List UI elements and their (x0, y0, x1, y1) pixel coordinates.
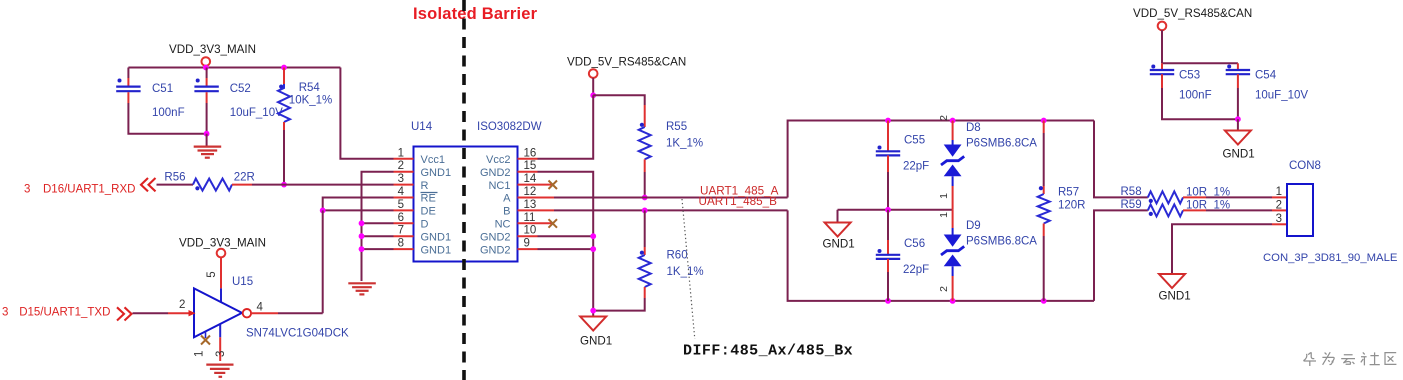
U14 left pin numbers (398, 147, 405, 249)
svg-text:R56: R56 (164, 172, 185, 184)
svg-text:1K_1%: 1K_1% (667, 266, 704, 278)
svg-text:16: 16 (524, 147, 537, 159)
wire R55 bottom lead (644, 159, 646, 172)
wire C55 top lead (887, 121, 889, 151)
node junction VDD_5V (590, 92, 596, 98)
svg-text:DE: DE (421, 206, 436, 218)
node junction on rail at R54 (281, 65, 287, 71)
U14 left pin stubs (394, 159, 414, 249)
no-connect X pin14 (549, 181, 558, 190)
svg-text:14: 14 (524, 173, 537, 185)
svg-text:D: D (421, 219, 429, 231)
wire A rail to R58 (1094, 121, 1148, 198)
svg-text:4: 4 (257, 302, 264, 314)
svg-text:SN74LVC1G04DCK: SN74LVC1G04DCK (246, 328, 349, 340)
node junction bottom rail R57 (1041, 298, 1047, 304)
svg-text:VDD_3V3_MAIN: VDD_3V3_MAIN (169, 43, 256, 56)
svg-text:8: 8 (398, 238, 404, 250)
connector CON8 (1263, 160, 1398, 264)
node junction R54/RXD wire (281, 182, 287, 188)
wire pin16 Vcc2 to VDD (538, 95, 594, 159)
svg-text:2: 2 (938, 115, 950, 121)
wire pin10 GND2 (538, 235, 594, 237)
wire top-left rail (128, 67, 340, 69)
ground GND1 symbol (top right) (1223, 131, 1255, 161)
wire C53 top lead (1161, 63, 1163, 70)
svg-text:R55: R55 (666, 121, 687, 133)
svg-text:3: 3 (1276, 213, 1282, 225)
svg-text:15: 15 (524, 160, 537, 172)
svg-text:VDD_3V3_MAIN: VDD_3V3_MAIN (179, 237, 266, 250)
wire U15 output (251, 312, 278, 314)
no-connect X pin11 (549, 219, 558, 228)
wire D9 bottom lead (952, 266, 954, 276)
ground GND1 symbol (middle) (580, 317, 612, 348)
node junction top rail R57 (1041, 118, 1047, 124)
U15 pin1 no-connect X (194, 332, 211, 358)
wire A up to filter top rail (788, 121, 1094, 198)
IC U14 ISO3082DW (411, 121, 542, 262)
wire R59 to CON8 pin2 (1183, 209, 1206, 211)
svg-text:9: 9 (524, 238, 530, 250)
capacitor C52 (194, 79, 283, 120)
svg-text:NC: NC (495, 219, 511, 231)
svg-text:R54: R54 (299, 82, 321, 94)
svg-text:GND1: GND1 (823, 238, 855, 251)
svg-text:U14: U14 (411, 121, 433, 133)
svg-text:C56: C56 (904, 238, 925, 250)
wire C52 bottom lead (206, 92, 208, 103)
svg-text:R59: R59 (1121, 199, 1142, 211)
U14 right pin names (480, 154, 511, 256)
node junction C51/C52 ground (204, 131, 210, 137)
capacitor C56 (876, 238, 929, 276)
wire mid gnd rail (838, 209, 953, 211)
node junction bottom rail D9 (950, 298, 956, 304)
wire R57 top lead (1043, 121, 1045, 134)
svg-text:C55: C55 (904, 135, 925, 147)
svg-text:5: 5 (398, 199, 404, 211)
wire gnd stub (filter) (837, 210, 839, 223)
wire R55 top lead (644, 105, 646, 127)
wire B down to filter bottom rail (788, 210, 1094, 301)
wire B rail to R59 (1094, 210, 1148, 301)
wire VCC rail to pin1 (340, 68, 393, 159)
wire DE down to U15 output (322, 210, 324, 313)
svg-text:GND2: GND2 (480, 244, 511, 256)
wire C54 top lead (1237, 63, 1239, 70)
isolated barrier dashed line (462, 0, 466, 380)
svg-text:GND1: GND1 (1159, 290, 1191, 303)
wire D9 top lead (952, 210, 954, 228)
U14 right pin stubs (518, 159, 555, 249)
svg-text:B: B (503, 206, 510, 218)
resistor R55 (639, 121, 703, 159)
ground earth symbol (U14) (348, 283, 376, 294)
wire U15 pin3 gnd (219, 325, 221, 338)
wire pin15 GND2 down (538, 172, 594, 317)
svg-text:1: 1 (194, 351, 206, 357)
svg-text:A: A (503, 193, 511, 205)
resistor R57 (1038, 186, 1086, 223)
svg-text:D9: D9 (966, 220, 981, 232)
wire TXD input (133, 312, 169, 314)
wire C56 top lead (887, 210, 889, 240)
op-amp U15 (inverter SN74LVC1G04DCK) (179, 237, 349, 340)
wire pin9 GND2 (538, 248, 594, 250)
wire pin7 GND1 (362, 235, 394, 237)
wire input arrowhead (189, 310, 196, 316)
wire C54 bottom lead (1237, 74, 1239, 88)
wire UART1_485_A (554, 197, 788, 199)
wire C51 top lead (127, 68, 129, 79)
svg-text:U15: U15 (232, 276, 253, 288)
svg-text:RE: RE (421, 193, 436, 205)
svg-text:D16/UART1_RXD: D16/UART1_RXD (43, 184, 135, 196)
svg-text:VDD_5V_RS485&CAN: VDD_5V_RS485&CAN (567, 56, 686, 69)
capacitor C51 (116, 79, 184, 120)
node junction pin9 (590, 246, 596, 252)
capacitor C53 (1150, 65, 1212, 102)
wire R58 to CON8 pin1 (1183, 196, 1206, 198)
capacitor C55 (876, 135, 929, 173)
svg-text:120R: 120R (1058, 200, 1086, 212)
U14 right pin numbers (524, 147, 537, 249)
wire gnd stub (top right) (1237, 119, 1239, 130)
wire stub to ground (206, 134, 208, 146)
wire top-right rail (1162, 62, 1238, 64)
resistor R58 (1121, 186, 1231, 203)
node junction pin6 (359, 220, 365, 226)
svg-text:7: 7 (398, 225, 404, 237)
svg-text:GND1: GND1 (580, 335, 612, 348)
power symbol VDD_5V_RS485&CAN (middle) (567, 56, 686, 96)
resistor R59 (1121, 199, 1231, 217)
svg-text:11: 11 (524, 212, 536, 224)
wire R57 bottom lead (1043, 224, 1045, 237)
svg-text:GND1: GND1 (421, 244, 452, 256)
wire C52 top lead (206, 68, 208, 79)
svg-text:Vcc1: Vcc1 (421, 154, 445, 166)
ground GND1 symbol (CON8) (1159, 274, 1191, 303)
wire R60 top lead (644, 210, 646, 247)
node junction R60/B (642, 208, 648, 214)
node junction C54 gnd (1235, 116, 1241, 122)
wire D8 top lead (952, 121, 954, 141)
port D16/UART1_RXD (24, 178, 156, 196)
svg-text:GND2: GND2 (480, 167, 511, 179)
wire R54 bottom lead (283, 122, 285, 130)
svg-text:1: 1 (938, 193, 950, 199)
node junction RE/DE (320, 208, 326, 214)
svg-text:3: 3 (215, 351, 227, 357)
svg-text:ISO3082DW: ISO3082DW (477, 121, 542, 133)
svg-text:NC1: NC1 (488, 180, 510, 192)
node junction bottom rail C56 (885, 298, 891, 304)
svg-text:10K_1%: 10K_1% (289, 95, 332, 107)
svg-text:CON8: CON8 (1289, 160, 1321, 172)
wire CON8 pin3 to gnd (1272, 223, 1287, 225)
ground GND1 symbol (filter) (823, 223, 855, 251)
svg-text:GND2: GND2 (480, 231, 511, 243)
svg-text:Vcc2: Vcc2 (486, 154, 510, 166)
dotted leader line DIFF (682, 199, 695, 339)
node junction R55/A (642, 195, 648, 201)
svg-text:C53: C53 (1179, 70, 1200, 82)
wire R56 to IC pin3 (232, 184, 252, 186)
wire R54 top lead (283, 68, 285, 85)
wire C56 bottom lead (887, 259, 889, 272)
svg-text:2: 2 (1276, 199, 1282, 211)
svg-text:2: 2 (179, 299, 185, 311)
svg-text:10uF_10V: 10uF_10V (1255, 90, 1308, 102)
svg-text:12: 12 (524, 186, 537, 198)
ground earth symbol (U15) (206, 365, 233, 377)
svg-text:1: 1 (398, 147, 404, 159)
svg-text:C54: C54 (1255, 70, 1277, 82)
svg-text:13: 13 (524, 199, 537, 211)
power symbol VDD_3V3_MAIN (top left) (169, 43, 256, 68)
svg-text:2: 2 (398, 160, 404, 172)
wire D8 bottom lead (952, 176, 954, 186)
power symbol VDD_5V_RS485&CAN (top right) (1133, 7, 1252, 63)
svg-text:6: 6 (398, 212, 404, 224)
resistor R54 (278, 82, 332, 122)
svg-text:1: 1 (938, 212, 950, 218)
svg-text:P6SMB6.8CA: P6SMB6.8CA (966, 138, 1037, 150)
svg-text:1K_1%: 1K_1% (666, 138, 703, 150)
U14 left pin names (421, 154, 452, 256)
svg-text:GND1: GND1 (421, 167, 452, 179)
watermark 华为云社区 (1303, 352, 1396, 366)
node junction R60 gnd (590, 308, 596, 314)
svg-text:22pF: 22pF (903, 264, 929, 276)
svg-text:UART1_485_B: UART1_485_B (699, 195, 778, 208)
svg-text:3: 3 (24, 184, 30, 196)
svg-text:22pF: 22pF (903, 161, 929, 173)
wire UART1_485_B (554, 209, 788, 211)
svg-text:R58: R58 (1121, 186, 1142, 198)
svg-text:P6SMB6.8CA: P6SMB6.8CA (966, 236, 1037, 248)
capacitor C54 (1226, 65, 1309, 102)
svg-text:VDD_5V_RS485&CAN: VDD_5V_RS485&CAN (1133, 7, 1252, 20)
wire pin4 RE jog (323, 198, 394, 211)
diode D9 P6SMB6.8CA (TVS) (941, 220, 1037, 266)
svg-text:22R: 22R (234, 172, 255, 184)
svg-text:100nF: 100nF (152, 107, 185, 119)
node junction pin8 (359, 246, 365, 252)
svg-text:R: R (421, 180, 429, 192)
resistor R60 (639, 250, 704, 287)
svg-text:10: 10 (524, 225, 537, 237)
wire pin6 D to gnd vertical (362, 222, 394, 224)
wire pin8 GND1 (362, 248, 394, 250)
svg-text:CON_3P_3D81_90_MALE: CON_3P_3D81_90_MALE (1263, 252, 1398, 264)
wire C53 bottom lead (1161, 74, 1163, 88)
wire pin2 GND1 (362, 172, 394, 281)
svg-text:3: 3 (398, 173, 404, 185)
port D15/UART1_TXD (2, 307, 132, 321)
svg-text:Isolated Barrier: Isolated Barrier (413, 5, 538, 23)
svg-text:10uF_10V: 10uF_10V (230, 107, 283, 119)
ground earth symbol (C52) (194, 147, 222, 158)
svg-text:GND1: GND1 (421, 231, 452, 243)
wire RXD to R56 (157, 184, 194, 186)
node junction top rail C55 (885, 118, 891, 124)
wire R60 bottom lead (644, 287, 646, 298)
node junction top rail D8 (950, 118, 956, 124)
svg-text:D15/UART1_TXD: D15/UART1_TXD (19, 307, 110, 319)
svg-text:C52: C52 (230, 83, 251, 95)
svg-text:DIFF:485_Ax/485_Bx: DIFF:485_Ax/485_Bx (683, 343, 853, 360)
svg-text:D8: D8 (966, 122, 981, 134)
svg-text:C51: C51 (152, 83, 173, 95)
node junction on rail at VDD (203, 65, 209, 71)
svg-text:2: 2 (938, 286, 950, 292)
diode D8 P6SMB6.8CA (TVS) (941, 122, 1037, 176)
svg-text:3: 3 (2, 307, 8, 319)
resistor R56 (164, 172, 254, 191)
svg-text:5: 5 (206, 271, 218, 277)
node junction pin7 (359, 233, 365, 239)
node junction pin10 (590, 233, 596, 239)
wire pin5 DE (323, 209, 394, 211)
wire C55 bottom lead (887, 155, 889, 172)
svg-text:R60: R60 (667, 250, 688, 262)
node junction C55/C56 mid (885, 207, 891, 213)
wire C51 bottom lead (127, 92, 129, 103)
svg-text:100nF: 100nF (1179, 90, 1212, 102)
svg-text:GND1: GND1 (1223, 148, 1255, 161)
wire VDD over to R55 (593, 95, 645, 105)
svg-text:R57: R57 (1058, 187, 1079, 199)
svg-text:1: 1 (1276, 186, 1282, 198)
svg-text:4: 4 (398, 186, 405, 198)
